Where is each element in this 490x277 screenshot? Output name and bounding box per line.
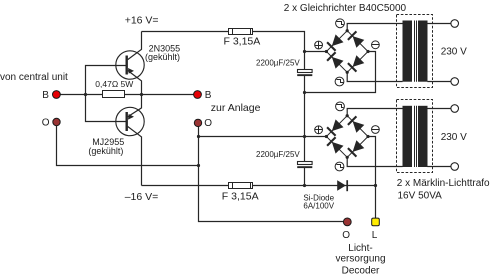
wire upper bridge minus return (305, 52, 376, 93)
svg-text:(gekühlt): (gekühlt) (145, 52, 180, 62)
rectifier BR1 B40C5000 (315, 19, 380, 86)
wire Q1 collector (128, 32, 142, 60)
svg-text:6A/100V: 6A/100V (303, 201, 334, 210)
svg-text:+16 V=: +16 V= (125, 14, 159, 26)
transistor Q2 MJ2955 (116, 107, 144, 135)
wire upper AC bottom (347, 72, 402, 81)
node emitter junction (140, 93, 143, 96)
svg-text:230 V: 230 V (441, 132, 467, 143)
fuse F2 (229, 183, 253, 189)
node rail plus junction (303, 50, 306, 53)
terminal O bottom (343, 218, 351, 226)
wire +16V rail (142, 32, 305, 70)
transformer T1 Maerklin-Lichttrafo (397, 15, 433, 88)
svg-text:B: B (205, 90, 212, 101)
node rail O junction (303, 135, 306, 138)
node O lower junction (197, 164, 200, 167)
rectifier BR2 B40C5000 (315, 102, 380, 171)
svg-text:2200µF/25V: 2200µF/25V (256, 58, 300, 67)
transistor Q1 2N3055 (116, 51, 144, 79)
capacitor C2 (297, 162, 312, 169)
wire -16V rail (142, 185, 376, 187)
terminal B right (194, 91, 202, 99)
terminal 230V T1 top (451, 20, 459, 28)
node rail minus16 junction (303, 184, 306, 187)
wire left O loop (57, 126, 199, 166)
wire O net horizontal (199, 136, 327, 138)
svg-text:zur Anlage: zur Anlage (211, 102, 261, 114)
svg-text:von central unit: von central unit (0, 72, 68, 83)
wire right O vertical (199, 126, 348, 222)
node L rail junction (374, 184, 377, 187)
wire upper bridge plus (305, 51, 327, 53)
svg-text:L: L (372, 230, 378, 241)
capacitor C1 (297, 70, 312, 77)
svg-text:2200µF/25V: 2200µF/25V (256, 150, 300, 159)
wire T2 right top (427, 108, 451, 110)
svg-text:F 3,15A: F 3,15A (224, 35, 261, 47)
diode D1 Si-Diode (337, 180, 347, 191)
wire T1 right bottom (427, 81, 451, 83)
svg-text:230 V: 230 V (441, 47, 467, 58)
svg-text:O: O (342, 230, 350, 241)
terminal B left (53, 91, 61, 99)
wire Q1 emitter (128, 71, 142, 95)
svg-text:F 3,15A: F 3,15A (222, 190, 259, 202)
wire Q2 emitter (128, 95, 142, 117)
wire lower AC bottom (347, 157, 402, 166)
terminal 230V T2 bottom (451, 163, 459, 171)
terminal O right (194, 119, 201, 126)
svg-text:O: O (42, 118, 50, 129)
svg-text:2 x Gleichrichter B40C5000: 2 x Gleichrichter B40C5000 (284, 3, 407, 14)
wire lower rail (304, 168, 306, 186)
svg-text:B: B (42, 90, 49, 101)
wire Q2 collector (128, 127, 142, 186)
terminal 230V T1 bottom (451, 78, 459, 86)
svg-text:Decoder: Decoder (342, 265, 380, 276)
wire lower bridge minus to L (368, 137, 376, 219)
transformer T2 Maerklin-Lichttrafo (397, 100, 433, 173)
wire T2 right bottom (427, 166, 451, 168)
wire mid rail (304, 76, 306, 161)
wire B line (56, 94, 198, 96)
fuse F1 (229, 29, 253, 35)
node rail return junction (303, 91, 306, 94)
wire lower AC top (347, 109, 402, 116)
svg-text:versorgung: versorgung (335, 254, 385, 265)
terminal L yellow (372, 218, 380, 226)
terminal 230V T2 top (451, 105, 459, 113)
svg-text:2 x Märklin-Lichttrafo: 2 x Märklin-Lichttrafo (397, 178, 490, 189)
resistor R1 (103, 91, 125, 98)
svg-text:O: O (204, 118, 212, 129)
svg-text:Licht-: Licht- (348, 243, 372, 254)
wire base loop (86, 66, 127, 122)
wire T1 right top (427, 23, 451, 25)
node base junction (84, 93, 87, 96)
svg-text:0,47Ω 5W: 0,47Ω 5W (95, 79, 133, 89)
svg-text:–16 V=: –16 V= (125, 191, 159, 203)
svg-text:(gekühlt): (gekühlt) (88, 146, 123, 156)
terminal O left (53, 118, 60, 125)
svg-text:16V 50VA: 16V 50VA (398, 191, 443, 202)
node O upper junction (197, 135, 200, 138)
wire upper AC top (347, 24, 402, 31)
